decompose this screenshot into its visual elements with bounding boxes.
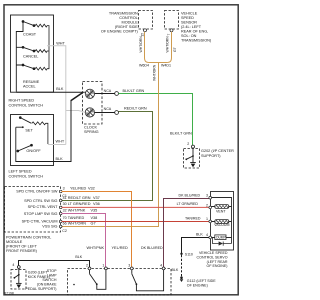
svg-text:TRANSMISSION): TRANSMISSION) (181, 39, 212, 43)
wire DK BLU/RED servo pin3 to stop lamp (164, 199, 210, 267)
wire BLK/LT GRN green to G202 (119, 94, 193, 146)
PCM pin labels inside (16, 190, 58, 229)
TCM connector box (139, 11, 153, 30)
svg-text:VEHICLE: VEHICLE (181, 12, 198, 16)
resistor R-coast (35, 24, 49, 46)
svg-text:COAST: COAST (23, 32, 37, 36)
svg-text:CONTROL: CONTROL (119, 16, 138, 20)
clock spring box (83, 82, 103, 125)
servo VENT coil (212, 206, 232, 208)
servo DUMP solenoid box (212, 237, 232, 239)
stop lamp switch A (89, 270, 91, 274)
svg-text:WHT/PNK: WHT/PNK (87, 246, 105, 250)
svg-text:CONTROL SWITCH: CONTROL SWITCH (9, 104, 44, 108)
wire BLK from left switch joining clock spring (54, 100, 72, 161)
svg-text:4: 4 (12, 263, 14, 267)
connector NCA top (115, 92, 119, 96)
svg-text:CLOCK: CLOCK (84, 126, 98, 130)
stop lamp pin numbers (86, 263, 162, 267)
switch COAST arm (22, 21, 35, 27)
svg-text:(RIGHT SIDE: (RIGHT SIDE (115, 25, 138, 29)
svg-text:FRONT FENDER): FRONT FENDER) (6, 249, 38, 253)
svg-text:70: 70 (63, 216, 67, 220)
wire WHT/ORN from VSS (158, 32, 172, 63)
switch CANCEL arm (22, 46, 35, 52)
wire RED/LT GRN olive to PCM pin 41 (62, 112, 153, 201)
servo diode branch (213, 238, 232, 244)
switch RESUME/ACCEL arm (22, 64, 35, 70)
svg-text:WHT/ORN: WHT/ORN (152, 64, 156, 81)
label vehicle speed sensor (181, 12, 212, 43)
svg-text:RESUME: RESUME (23, 80, 40, 84)
svg-text:7: 7 (167, 34, 171, 36)
connector pin G200 (17, 266, 20, 269)
wire TAN/RED pin70 to servo pin1 (62, 221, 210, 223)
svg-text:BLK: BLK (172, 268, 179, 272)
svg-text:VACUUM: VACUUM (214, 223, 229, 227)
node: left bus of left switch (16, 127, 54, 161)
svg-text:MODULE: MODULE (122, 21, 139, 25)
svg-text:SENSOR: SENSOR (181, 21, 197, 25)
svg-text:2: 2 (187, 142, 189, 146)
svg-text:WHT/ORN: WHT/ORN (139, 36, 143, 53)
svg-text:TAN/RED: TAN/RED (185, 216, 201, 220)
svg-text:WHT: WHT (56, 41, 65, 45)
svg-text:ON/OFF: ON/OFF (26, 149, 41, 153)
stop lamp switch box (68, 269, 172, 296)
svg-text:TAN/RED: TAN/RED (68, 216, 85, 220)
svg-text:STOP: STOP (47, 269, 57, 273)
svg-text:ACCEL: ACCEL (23, 85, 36, 89)
svg-text:SET: SET (25, 128, 33, 132)
svg-text:BLK: BLK (196, 233, 203, 237)
svg-text:W6D4: W6D4 (139, 63, 149, 67)
svg-text:30: 30 (63, 202, 67, 206)
svg-text:3: 3 (63, 186, 65, 190)
switch box: right speed control switch (11, 15, 54, 92)
switch dot mark (73, 284, 75, 286)
PCM box powertrain control module (5, 187, 61, 233)
ground G200 symbol (16, 282, 22, 284)
svg-text:STOP LMP SW SIG: STOP LMP SW SIG (24, 212, 58, 216)
switch box: left speed control switch (11, 115, 54, 166)
svg-text:BLK/LT GRN: BLK/LT GRN (123, 89, 145, 93)
svg-text:CANCEL: CANCEL (23, 55, 38, 59)
svg-text:OF ENGINE): OF ENGINE) (207, 264, 228, 268)
svg-text:(2.4L: LEFT: (2.4L: LEFT (181, 25, 202, 29)
svg-text:PEDAL SUPPORT): PEDAL SUPPORT) (25, 287, 56, 291)
wire BLK stop lamp to G200 (19, 261, 90, 267)
connector NCA bottom (115, 111, 119, 115)
svg-text:SPRING: SPRING (84, 130, 99, 134)
pin connector under VSS (170, 29, 173, 32)
servo pin connectors (209, 196, 212, 238)
svg-text:3: 3 (128, 263, 130, 267)
svg-text:VENT: VENT (216, 210, 226, 214)
svg-text:BLK: BLK (56, 157, 64, 161)
node: left common bus of right switch (16, 22, 23, 92)
VSS connector box (165, 11, 179, 30)
svg-text:LAMP: LAMP (47, 274, 57, 278)
switch SET arm (19, 117, 31, 124)
svg-text:2: 2 (86, 263, 88, 267)
svg-text:TRANSMISSION: TRANSMISSION (109, 12, 138, 16)
svg-text:2: 2 (206, 203, 208, 207)
PCM pin stubs (59, 190, 62, 228)
svg-text:SUPPORT): SUPPORT) (201, 154, 221, 158)
svg-text:(FRONT OF LEFT: (FRONT OF LEFT (6, 245, 38, 249)
svg-text:WHT: WHT (56, 140, 65, 144)
G202 internal wire and contact (192, 148, 194, 162)
svg-text:32: 32 (63, 209, 67, 213)
servo box (211, 192, 234, 251)
svg-text:RIGHT SPEED: RIGHT SPEED (9, 99, 35, 103)
svg-text:S110: S110 (185, 252, 193, 256)
svg-text:41: 41 (63, 196, 67, 200)
wire YEL/RED pin3 to stop lamp switch (62, 192, 132, 267)
G200 internal wire and contact (18, 268, 20, 283)
resistor R-cancel (35, 50, 49, 53)
svg-text:1: 1 (102, 263, 104, 267)
svg-text:G7: G7 (173, 47, 177, 52)
svg-text:V32: V32 (88, 186, 95, 190)
svg-text:POWERTRAIN CONTROL: POWERTRAIN CONTROL (6, 236, 51, 240)
svg-text:4: 4 (206, 233, 208, 237)
svg-text:OF ENGINE): OF ENGINE) (187, 284, 208, 288)
svg-text:LEFT SPEED: LEFT SPEED (9, 170, 32, 174)
pin connector under TCM (144, 29, 147, 32)
resistor R-set (32, 122, 48, 144)
label stop lamp switch (25, 269, 57, 291)
svg-text:G202 (I/P CENTER: G202 (I/P CENTER (201, 149, 234, 153)
svg-text:WHT/PNK: WHT/PNK (68, 209, 86, 213)
wire LT GRN/RED pin30 to servo pin2 (62, 206, 210, 208)
border frame (4, 5, 238, 295)
clock spring contact 2 (85, 108, 114, 117)
svg-text:15: 15 (140, 33, 144, 37)
svg-text:DUMP: DUMP (216, 236, 225, 240)
svg-text:C2: C2 (62, 229, 67, 233)
svg-text:RED/LT GRN: RED/LT GRN (68, 196, 91, 200)
svg-text:SOL: ON: SOL: ON (181, 34, 197, 38)
svg-text:VSS SIG: VSS SIG (42, 225, 57, 229)
svg-text:CONTROL SWITCH: CONTROL SWITCH (9, 175, 44, 179)
svg-text:3: 3 (206, 194, 208, 198)
wire BLK from right switch to clock spring (16, 91, 85, 93)
servo VACUUM coil (212, 221, 232, 223)
svg-text:SPD CTRL VENT: SPD CTRL VENT (28, 205, 58, 209)
svg-text:SPD CTRL ON/OFF SW: SPD CTRL ON/OFF SW (16, 190, 58, 194)
wire WHT/PNK pin32 to stop lamp switch (62, 214, 106, 267)
svg-text:G112 (LEFT SIDE: G112 (LEFT SIDE (187, 279, 216, 283)
svg-text:1: 1 (206, 217, 208, 221)
wire WHT/ORN merged down to PCM pin 66 (62, 63, 159, 227)
svg-text:DK BLU/RED: DK BLU/RED (141, 246, 163, 250)
ground G112 symbol (180, 276, 183, 279)
svg-text:MODULE: MODULE (6, 240, 23, 244)
ground G202 symbol (190, 162, 196, 164)
svg-text:(ON BRAKE: (ON BRAKE (37, 283, 57, 287)
svg-text:87198: 87198 (4, 291, 14, 295)
svg-text:V37: V37 (93, 196, 100, 200)
wire WHT from right switch (47, 46, 85, 145)
servo pin numbers (206, 194, 208, 237)
svg-text:LT GRN/RED: LT GRN/RED (68, 202, 91, 206)
splice S110 (180, 253, 182, 255)
label vehicle speed control servo (197, 251, 228, 268)
svg-text:LT GRN/RED: LT GRN/RED (177, 202, 199, 206)
svg-text:BLK: BLK (75, 255, 82, 259)
svg-text:OF ENGINE COMPT): OF ENGINE COMPT) (101, 30, 139, 34)
switch ON/OFF arm (17, 144, 33, 152)
svg-text:BLK: BLK (56, 87, 64, 91)
svg-text:REAR OF ENG,: REAR OF ENG, (181, 30, 208, 34)
G202 box (184, 149, 200, 169)
svg-text:V38: V38 (91, 216, 98, 220)
svg-text:SWITCH: SWITCH (42, 278, 57, 282)
stop lamp switch B (131, 270, 133, 274)
stop lamp pins (88, 267, 165, 270)
wire BLK servo pin4 to splice S110 (182, 238, 210, 254)
svg-text:V35: V35 (91, 209, 98, 213)
wire BLK dashed to G112 (181, 255, 183, 276)
svg-text:DK BLU/RED: DK BLU/RED (179, 193, 201, 197)
svg-text:WHT/ORN: WHT/ORN (165, 36, 169, 53)
svg-text:SPD CTRL VACUUM: SPD CTRL VACUUM (22, 219, 58, 223)
svg-text:BLK/LT GRN: BLK/LT GRN (170, 132, 192, 136)
svg-text:RED/LT GRN: RED/LT GRN (124, 107, 147, 111)
svg-text:NCA: NCA (104, 107, 112, 111)
svg-text:W4D1: W4D1 (161, 63, 171, 67)
svg-text:G200 (LEFT: G200 (LEFT (28, 270, 49, 274)
svg-text:YEL/RED: YEL/RED (112, 246, 129, 250)
G200 box (11, 270, 26, 290)
clock spring contact 1 (85, 89, 114, 98)
svg-text:SPD CTRL SW SIG: SPD CTRL SW SIG (24, 199, 57, 203)
connector pin G202 (192, 145, 195, 148)
svg-text:NCA: NCA (104, 89, 112, 93)
label transmission control module (101, 12, 139, 34)
svg-text:V36: V36 (93, 202, 100, 206)
servo internal rail (212, 198, 232, 244)
resistor R-resume (35, 46, 49, 70)
wire WHT/ORN from TCM (145, 32, 159, 63)
svg-text:4: 4 (160, 263, 162, 267)
svg-text:SPEED: SPEED (181, 16, 194, 20)
svg-text:YEL/RED: YEL/RED (70, 186, 87, 190)
